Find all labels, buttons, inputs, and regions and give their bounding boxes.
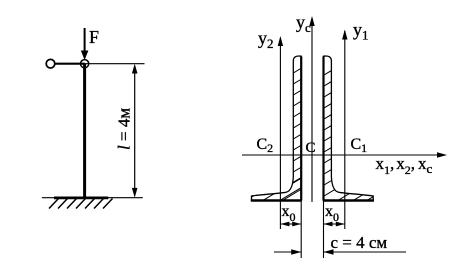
svg-text:C1: C1 xyxy=(351,136,368,155)
svg-text:C: C xyxy=(306,140,316,156)
svg-text:c = 4 см: c = 4 см xyxy=(331,233,388,252)
svg-text:F: F xyxy=(89,27,99,47)
svg-text:y2: y2 xyxy=(258,28,274,51)
svg-text:l = 4м: l = 4м xyxy=(115,108,134,150)
svg-text:y1: y1 xyxy=(353,20,369,43)
svg-text:x0: x0 xyxy=(282,203,296,224)
svg-text:x1,x2,xc: x1,x2,xc xyxy=(376,154,433,177)
svg-text:x0: x0 xyxy=(325,203,339,224)
svg-text:C2: C2 xyxy=(257,136,274,155)
svg-text:yc: yc xyxy=(296,12,311,35)
